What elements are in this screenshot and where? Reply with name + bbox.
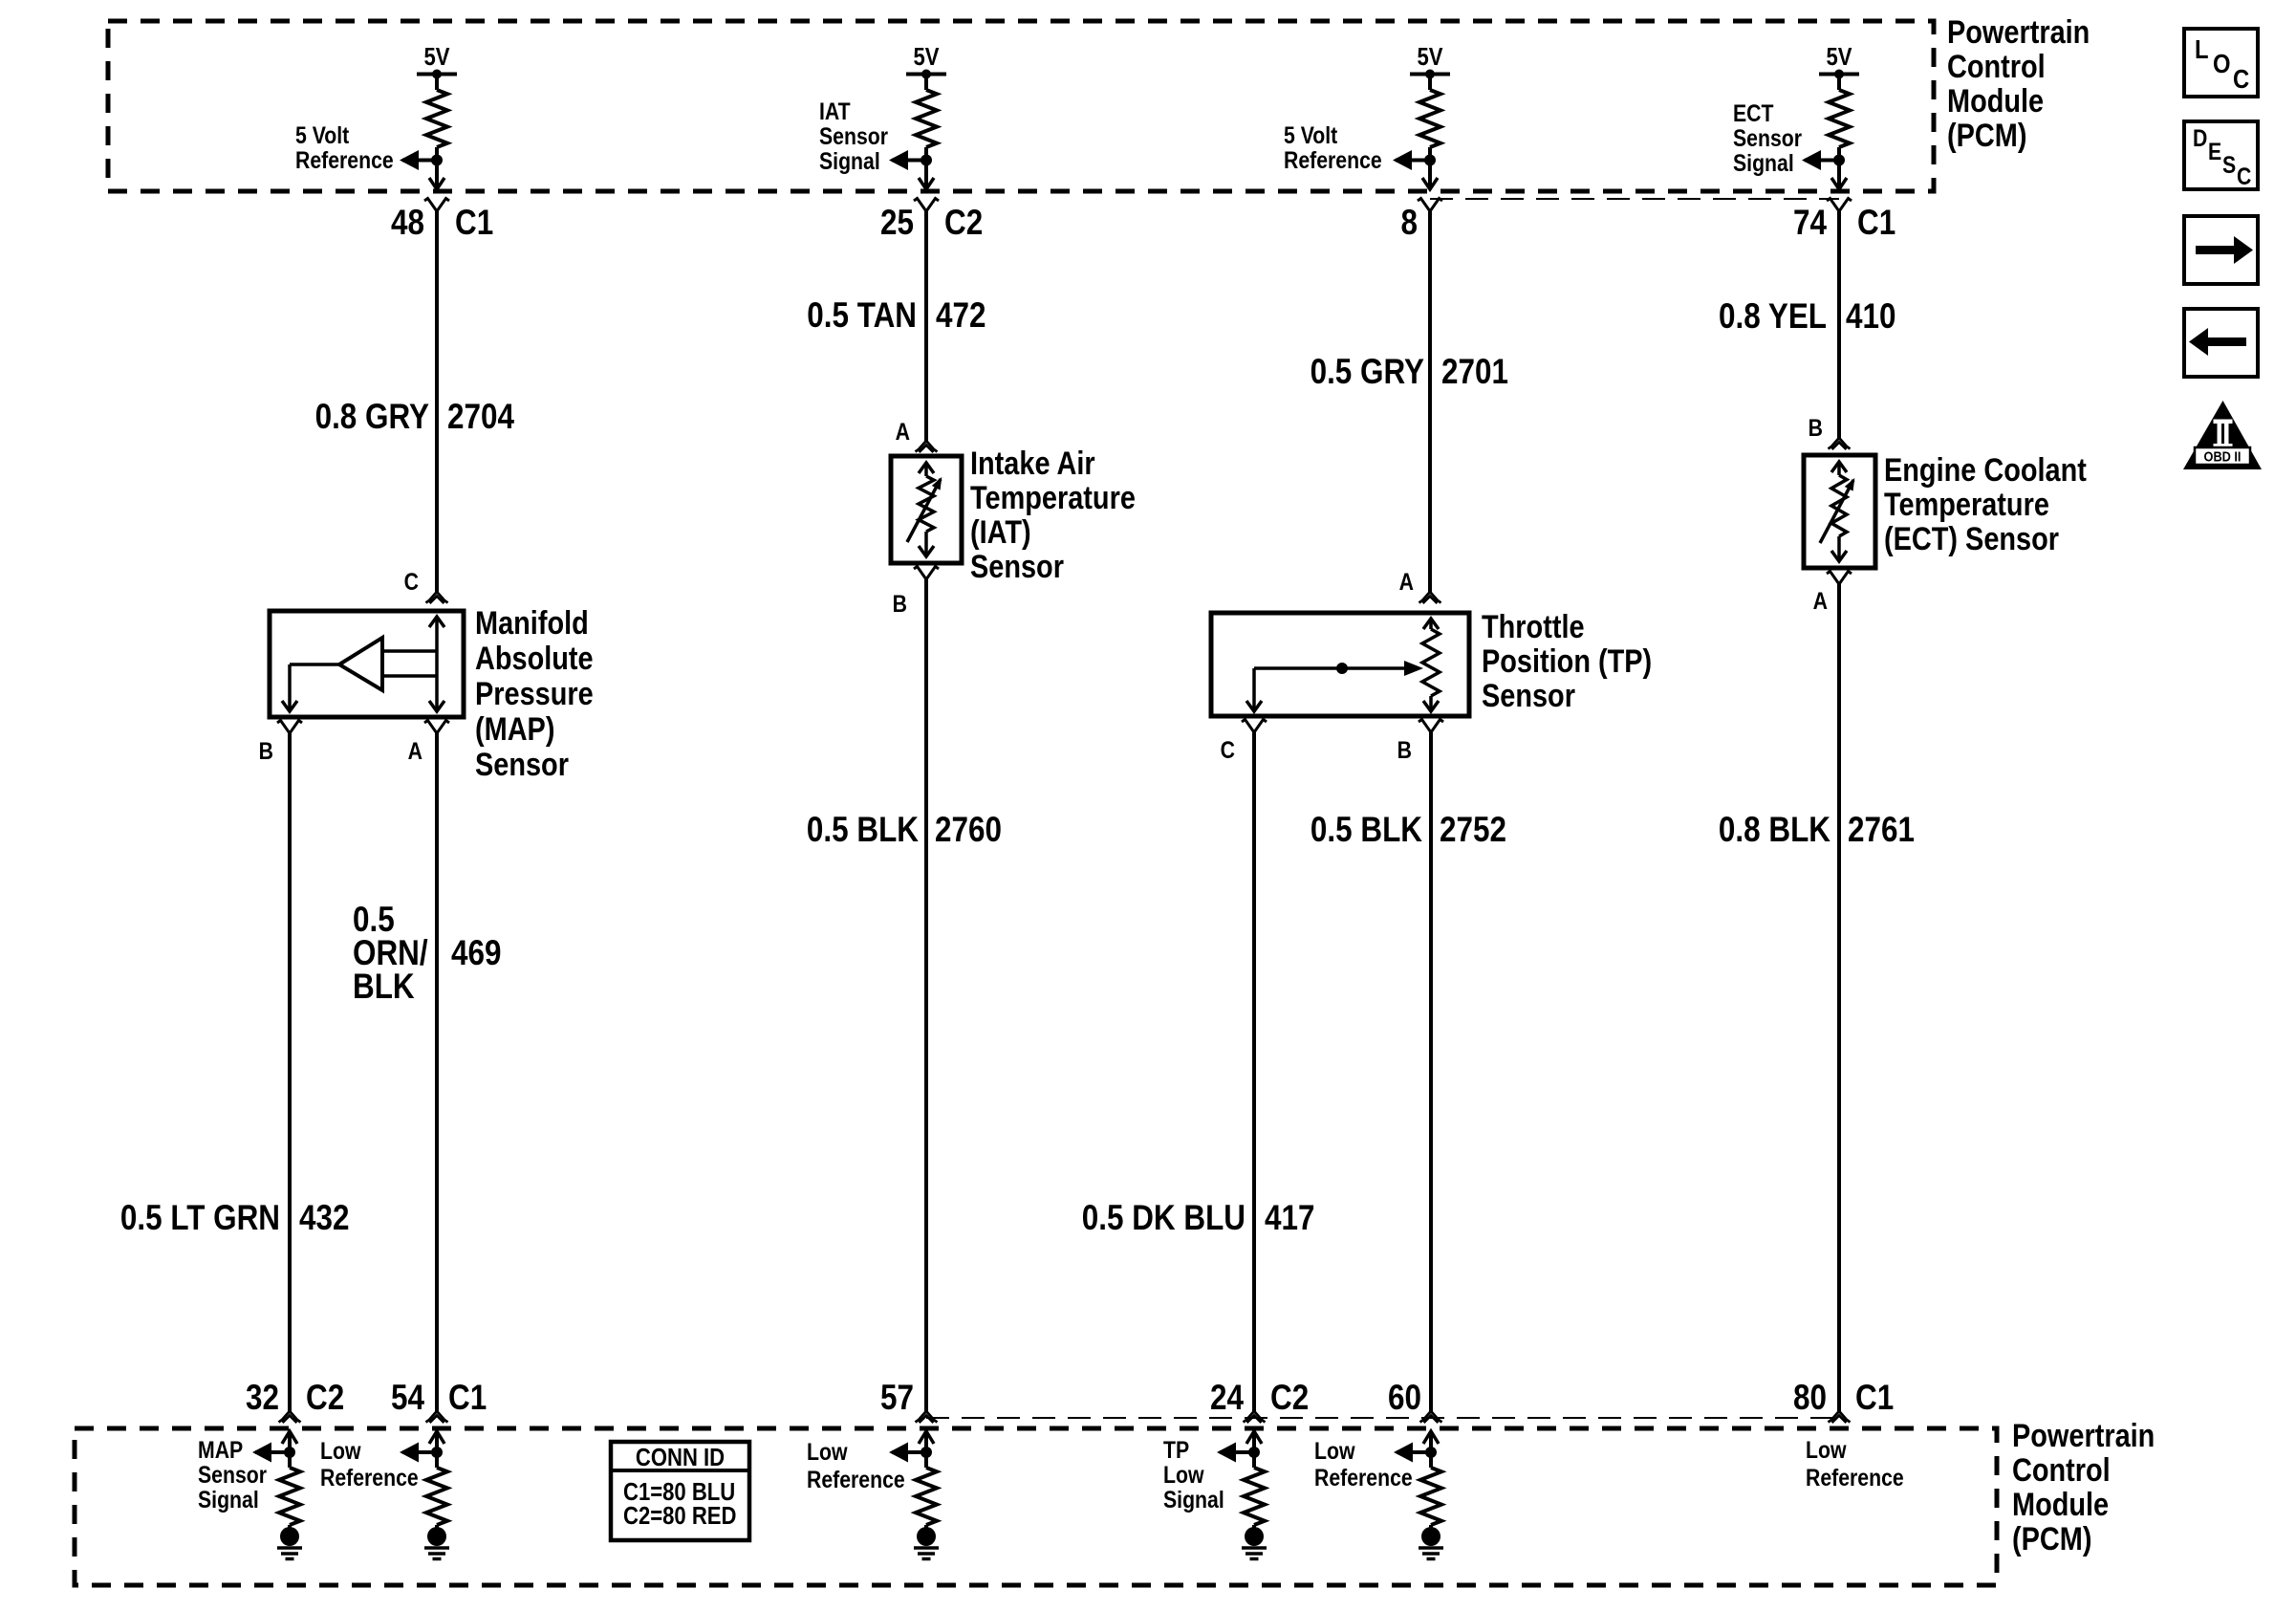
svg-text:OBD II: OBD II: [2204, 447, 2242, 464]
svg-text:Powertrain: Powertrain: [1947, 13, 2090, 51]
svg-text:2701: 2701: [1441, 353, 1508, 392]
svg-text:C1: C1: [448, 1379, 487, 1418]
svg-text:Module: Module: [2012, 1486, 2109, 1523]
svg-text:2761: 2761: [1848, 811, 1915, 850]
svg-text:Low: Low: [1806, 1436, 1847, 1463]
svg-text:8: 8: [1401, 204, 1418, 243]
svg-text:A: A: [896, 418, 911, 445]
svg-text:Low: Low: [807, 1438, 848, 1465]
svg-text:5V: 5V: [913, 43, 939, 71]
svg-text:472: 472: [936, 296, 986, 336]
svg-text:5V: 5V: [1417, 43, 1442, 71]
svg-text:417: 417: [1265, 1199, 1314, 1238]
svg-text:Reference: Reference: [320, 1464, 419, 1491]
svg-text:0.8 GRY: 0.8 GRY: [315, 398, 430, 437]
svg-text:CONN ID: CONN ID: [636, 1444, 725, 1471]
svg-text:C1: C1: [1855, 1379, 1894, 1418]
svg-text:432: 432: [299, 1199, 349, 1238]
svg-text:(IAT): (IAT): [970, 513, 1031, 551]
svg-text:Powertrain: Powertrain: [2012, 1417, 2155, 1454]
svg-text:5 Volt: 5 Volt: [1284, 121, 1338, 148]
svg-text:O: O: [2213, 48, 2231, 78]
svg-text:B: B: [259, 737, 273, 764]
svg-text:Sensor: Sensor: [1733, 124, 1802, 151]
svg-text:Low: Low: [1163, 1461, 1204, 1488]
svg-text:Reference: Reference: [1806, 1464, 1904, 1491]
svg-text:0.5 BLK: 0.5 BLK: [1310, 811, 1422, 850]
svg-text:60: 60: [1388, 1379, 1421, 1418]
svg-text:D: D: [2193, 124, 2207, 151]
svg-text:Reference: Reference: [807, 1466, 905, 1492]
svg-text:Reference: Reference: [1284, 146, 1382, 173]
svg-text:Reference: Reference: [1314, 1464, 1413, 1491]
svg-text:A: A: [1399, 568, 1415, 595]
svg-text:2760: 2760: [935, 811, 1002, 850]
svg-text:Sensor: Sensor: [819, 122, 888, 149]
svg-text:Sensor: Sensor: [198, 1461, 267, 1488]
svg-text:Sensor: Sensor: [475, 746, 569, 783]
svg-text:2752: 2752: [1440, 811, 1506, 850]
svg-text:Low: Low: [320, 1437, 361, 1464]
svg-text:0.5 TAN: 0.5 TAN: [807, 296, 917, 336]
svg-text:0.8 BLK: 0.8 BLK: [1719, 811, 1830, 850]
svg-text:Sensor: Sensor: [970, 548, 1064, 585]
svg-text:48: 48: [391, 204, 424, 243]
svg-text:ECT: ECT: [1733, 99, 1773, 126]
svg-text:(PCM): (PCM): [2012, 1520, 2091, 1557]
svg-text:0.5 GRY: 0.5 GRY: [1310, 353, 1425, 392]
svg-text:Absolute: Absolute: [475, 640, 594, 677]
svg-text:IAT: IAT: [819, 98, 851, 124]
svg-text:(PCM): (PCM): [1947, 117, 2026, 154]
svg-text:S: S: [2222, 151, 2236, 178]
svg-text:0.8 YEL: 0.8 YEL: [1719, 297, 1827, 337]
svg-text:Control: Control: [1947, 48, 2046, 85]
svg-text:Engine Coolant: Engine Coolant: [1884, 451, 2087, 489]
svg-text:C2: C2: [306, 1379, 344, 1418]
svg-text:57: 57: [880, 1379, 914, 1418]
svg-text:74: 74: [1793, 204, 1827, 243]
svg-text:C1: C1: [1857, 204, 1895, 243]
svg-text:Signal: Signal: [1733, 149, 1794, 176]
svg-text:C: C: [2233, 63, 2249, 94]
svg-text:Sensor: Sensor: [1482, 677, 1575, 714]
svg-text:410: 410: [1846, 297, 1895, 337]
svg-text:0.5 DK BLU: 0.5 DK BLU: [1082, 1199, 1245, 1238]
svg-text:L: L: [2195, 33, 2209, 64]
svg-text:Temperature: Temperature: [1884, 486, 2049, 523]
svg-text:5 Volt: 5 Volt: [295, 121, 350, 148]
svg-text:54: 54: [391, 1379, 424, 1418]
svg-text:Signal: Signal: [819, 147, 880, 174]
svg-text:0.5 BLK: 0.5 BLK: [807, 811, 919, 850]
svg-text:Intake Air: Intake Air: [970, 445, 1095, 482]
svg-text:32: 32: [246, 1379, 279, 1418]
svg-text:TP: TP: [1163, 1436, 1189, 1463]
svg-text:24: 24: [1210, 1379, 1244, 1418]
svg-text:Module: Module: [1947, 82, 2044, 120]
svg-text:C2=80 RED: C2=80 RED: [623, 1502, 736, 1530]
svg-text:MAP: MAP: [198, 1436, 243, 1463]
svg-text:2704: 2704: [447, 398, 514, 437]
svg-text:C: C: [1221, 736, 1236, 763]
svg-text:C: C: [2237, 163, 2252, 189]
svg-text:(MAP): (MAP): [475, 710, 554, 748]
svg-text:(ECT) Sensor: (ECT) Sensor: [1884, 520, 2059, 557]
svg-text:Throttle: Throttle: [1482, 608, 1585, 645]
svg-text:Temperature: Temperature: [970, 479, 1136, 516]
svg-text:0.5 LT GRN: 0.5 LT GRN: [120, 1199, 280, 1238]
svg-text:E: E: [2208, 138, 2221, 164]
svg-text:Signal: Signal: [198, 1486, 259, 1513]
svg-text:5V: 5V: [1826, 43, 1852, 71]
svg-text:Signal: Signal: [1163, 1486, 1224, 1513]
svg-text:BLK: BLK: [353, 968, 415, 1007]
svg-text:25: 25: [880, 204, 914, 243]
svg-text:C: C: [404, 568, 420, 595]
svg-text:Control: Control: [2012, 1451, 2111, 1489]
svg-text:C2: C2: [1270, 1379, 1309, 1418]
svg-text:C2: C2: [944, 204, 983, 243]
svg-text:B: B: [893, 590, 907, 617]
svg-text:Manifold: Manifold: [475, 604, 589, 642]
svg-text:469: 469: [451, 934, 501, 973]
svg-text:A: A: [408, 737, 423, 764]
svg-text:Reference: Reference: [295, 146, 394, 173]
svg-text:5V: 5V: [423, 43, 449, 71]
svg-text:B: B: [1397, 736, 1412, 763]
svg-text:C1: C1: [455, 204, 493, 243]
svg-text:Pressure: Pressure: [475, 675, 594, 712]
svg-text:80: 80: [1793, 1379, 1827, 1418]
svg-text:Low: Low: [1314, 1437, 1355, 1464]
svg-text:B: B: [1809, 414, 1823, 441]
svg-text:Position (TP): Position (TP): [1482, 642, 1652, 680]
svg-text:A: A: [1813, 587, 1829, 614]
